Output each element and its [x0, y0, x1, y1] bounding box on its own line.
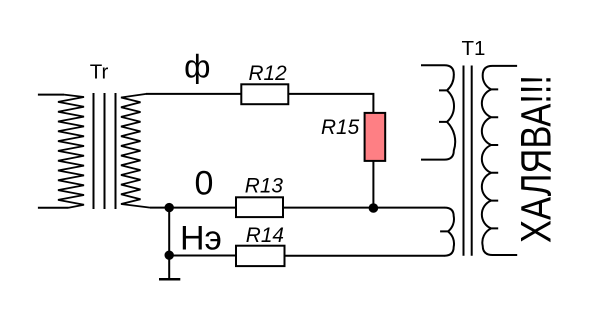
transformer T1 lower primary coil (2 loops): [440, 208, 454, 256]
wire (Tr primary bottom lead): [38, 207, 69, 209]
wire (ф rail from Tr secondary to R12): [146, 93, 241, 95]
svg-text:R14: R14: [246, 224, 284, 247]
svg-text:0: 0: [195, 164, 214, 202]
wire (vertical between 0 node and Нэ node): [168, 208, 170, 256]
transformer Tr secondary winding (zigzag): [121, 94, 150, 208]
transformer Tr primary winding (zigzag): [58, 95, 84, 208]
wire (T1 upper primary bottom stub): [421, 159, 445, 161]
ground: [168, 255, 170, 279]
wire (Нэ rail: node to R14): [169, 255, 236, 257]
transformer T1 core (2 lines): [463, 66, 465, 256]
junction dot (R15 bottom on 0 rail): [369, 203, 379, 213]
svg-text:R13: R13: [245, 175, 284, 198]
transformer T1 upper primary coil (3 loops): [439, 65, 455, 159]
svg-text:ф: ф: [184, 49, 210, 85]
resistor R15: [365, 113, 386, 161]
wire (R12 to R15 top, with corner): [288, 94, 373, 113]
transformer Tr core (3 lines): [93, 93, 95, 209]
wire (Нэ rail: R14 to T1 lower primary coil): [285, 255, 446, 257]
wire (0 rail: Tr secondary bottom to R13): [150, 207, 236, 209]
resistor R14: [236, 246, 285, 266]
junction dot (Нэ node): [165, 251, 174, 260]
junction dot (0 rail / Tr bottom node): [165, 203, 174, 212]
svg-text:R15: R15: [321, 116, 360, 139]
svg-text:ХАЛЯВА!!!: ХАЛЯВА!!!: [512, 75, 560, 243]
transformer T1 secondary coil (7 loops): [482, 66, 517, 255]
wire (0 rail: R13 to T1 lower primary coil): [283, 207, 445, 209]
wire (T1 upper primary top stub): [421, 64, 445, 66]
svg-text:Нэ: Нэ: [180, 219, 222, 257]
wire (R15 bottom to 0 rail): [372, 161, 374, 209]
svg-text:T1: T1: [462, 37, 486, 60]
resistor R13: [236, 197, 283, 217]
resistor R12: [241, 84, 288, 104]
svg-text:Tr: Tr: [90, 60, 109, 83]
wire (Tr primary top lead): [38, 94, 64, 96]
svg-text:R12: R12: [249, 62, 288, 85]
